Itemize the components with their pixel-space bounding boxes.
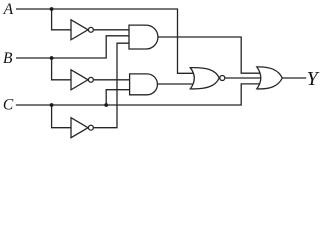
svg-text:C: C — [3, 96, 14, 113]
svg-text:Y: Y — [307, 68, 320, 90]
svg-text:B: B — [3, 50, 13, 67]
svg-text:A: A — [3, 1, 14, 18]
